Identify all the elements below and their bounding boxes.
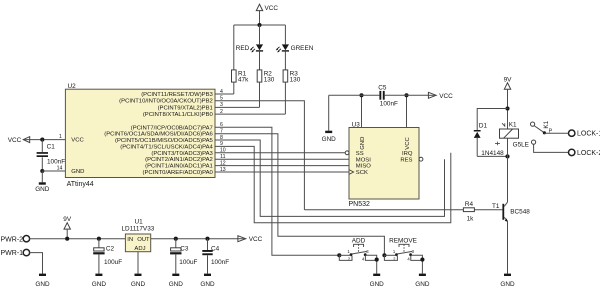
junction REMOVE left xyxy=(382,253,386,257)
svg-text:(PCINT9/XTAL2)PB1: (PCINT9/XTAL2)PB1 xyxy=(158,105,213,111)
svg-text:MISO: MISO xyxy=(356,164,371,170)
ground below U1 ADJ xyxy=(131,274,146,288)
op IC U3 PN532 body xyxy=(345,121,423,208)
capacitor C5 100nF xyxy=(378,84,398,107)
svg-text:(PCINT5/OC1B/MISO/DO/ADC5)PA5: (PCINT5/OC1B/MISO/DO/ADC5)PA5 xyxy=(115,138,213,144)
wire R1 column xyxy=(233,25,235,70)
U3 RES inversion circle xyxy=(419,157,423,161)
svg-text:100uF: 100uF xyxy=(104,259,122,266)
svg-text:GND: GND xyxy=(35,186,50,193)
svg-text:GND: GND xyxy=(370,281,385,288)
pushbutton S REMOVE xyxy=(389,238,417,262)
capacitor C1 100nF xyxy=(37,140,66,171)
svg-text:MOSI: MOSI xyxy=(356,157,371,163)
svg-text:U3: U3 xyxy=(352,121,361,128)
wire PA1 pin12 to MISO xyxy=(215,165,349,167)
9V supply arrow right xyxy=(504,76,513,129)
svg-text:C3: C3 xyxy=(180,246,189,253)
wire PA6 pin7 to REMOVE button xyxy=(215,134,384,256)
LED D red xyxy=(236,44,263,70)
U2 pin labels right side xyxy=(104,92,213,176)
svg-text:GND: GND xyxy=(360,137,366,150)
svg-text:C4: C4 xyxy=(211,246,220,253)
svg-text:(PCINT11/RESET/DW)PB3: (PCINT11/RESET/DW)PB3 xyxy=(141,92,213,98)
svg-text:(PCINT10/INT0/OC0A/CKOUT)PB2: (PCINT10/INT0/OC0A/CKOUT)PB2 xyxy=(119,99,213,105)
junction C4 xyxy=(205,237,209,241)
wire ADD pin4 loop xyxy=(365,256,376,261)
svg-text:(PCINT3/T0/ADC3)PA3: (PCINT3/T0/ADC3)PA3 xyxy=(151,151,213,157)
svg-text:RES: RES xyxy=(400,157,412,163)
ground below C2 xyxy=(92,274,107,288)
svg-text:PWR-1: PWR-1 xyxy=(1,250,24,257)
svg-text:C2: C2 xyxy=(106,246,115,253)
wire REMOVE right lead to ground xyxy=(411,255,423,273)
svg-text:GND: GND xyxy=(169,281,184,288)
wire D1 top branch xyxy=(477,109,507,131)
wire PB1 pin3 to R2 xyxy=(215,106,260,108)
regulator U1 LD1117V33 xyxy=(122,219,155,253)
U3 SS inversion circle xyxy=(345,151,349,155)
svg-text:1k: 1k xyxy=(467,215,475,222)
svg-text:VCC: VCC xyxy=(405,137,411,150)
svg-text:(PCINT4/T1/SCL/USCK/ADC4)PA4: (PCINT4/T1/SCL/USCK/ADC4)PA4 xyxy=(120,144,213,150)
op IC U2 ATtiny44 body xyxy=(65,83,215,188)
pushbutton S ADD xyxy=(347,238,369,262)
wire U1 out rail xyxy=(151,238,238,240)
ground below C4 xyxy=(200,274,215,288)
junction C1 top xyxy=(40,138,44,142)
relay contact K1 xyxy=(531,120,553,144)
junction 9V / D1 xyxy=(505,106,509,110)
wire ADD right lead to ground xyxy=(365,255,377,273)
wire U1 ADJ to ground xyxy=(137,252,139,274)
svg-text:(PCINT7/ICP/OC0B/ADC7)PA7: (PCINT7/ICP/OC0B/ADC7)PA7 xyxy=(131,125,213,131)
svg-text:(PCINT6/OC1A/SDA/MOSI/DI/ADC6): (PCINT6/OC1A/SDA/MOSI/DI/ADC6)PA6 xyxy=(104,132,213,138)
terminal LOCK-2 xyxy=(569,149,600,157)
wire PA0 pin13 to SCK xyxy=(215,171,349,173)
relay K1 coil G5LE xyxy=(495,122,529,149)
svg-text:U1: U1 xyxy=(135,219,144,226)
svg-text:D1: D1 xyxy=(479,122,488,129)
wire PA5 pin8 to RES xyxy=(215,140,445,216)
svg-text:GND: GND xyxy=(322,136,337,143)
svg-text:BC548: BC548 xyxy=(510,209,530,216)
svg-text:IRQ: IRQ xyxy=(402,151,413,157)
svg-text:LOCK-2: LOCK-2 xyxy=(577,150,600,157)
junction 9V rail xyxy=(65,237,69,241)
wire PB3 pin4 to R1 xyxy=(215,93,234,95)
svg-text:GND: GND xyxy=(131,281,146,288)
svg-text:GND: GND xyxy=(200,281,215,288)
svg-text:C1: C1 xyxy=(47,144,56,151)
svg-text:VCC: VCC xyxy=(265,5,279,12)
wire D1 bottom branch xyxy=(477,155,507,157)
wire pin14 xyxy=(42,170,65,172)
wire RED LED column xyxy=(259,25,261,44)
svg-text:OUT: OUT xyxy=(137,237,150,243)
svg-text:GREEN: GREEN xyxy=(291,45,314,52)
svg-text:ADD: ADD xyxy=(352,238,366,245)
wire VCC rail top xyxy=(234,24,286,26)
wire GREEN LED column xyxy=(284,25,286,44)
svg-text:LD1117V33: LD1117V33 xyxy=(122,226,155,233)
svg-text:U2: U2 xyxy=(68,83,77,90)
svg-text:9V: 9V xyxy=(63,216,72,223)
wire PB0 pin2 to R3 xyxy=(215,113,285,115)
svg-text:K1: K1 xyxy=(509,122,517,129)
svg-text:IN: IN xyxy=(127,237,133,243)
terminal PWR-2 xyxy=(1,236,30,244)
svg-text:GND: GND xyxy=(415,281,430,288)
wire R4 to T1 base xyxy=(474,209,502,211)
svg-text:GND: GND xyxy=(92,281,107,288)
diode D1 1N4148 xyxy=(474,122,504,157)
resistor R2 130 xyxy=(257,70,275,108)
svg-text:130: 130 xyxy=(290,77,301,84)
wire C5 left rail xyxy=(329,94,380,96)
junction U3 VCC stub xyxy=(404,93,408,97)
svg-text:47k: 47k xyxy=(238,77,249,84)
wire relay to T1 collector xyxy=(507,138,509,202)
svg-text:PN532: PN532 xyxy=(349,201,371,208)
ground below C1 xyxy=(35,171,50,193)
svg-text:GND: GND xyxy=(71,169,84,175)
svg-text:(PCINT2/AIN1/ADC2)PA2: (PCINT2/AIN1/ADC2)PA2 xyxy=(145,157,213,163)
svg-text:VCC: VCC xyxy=(8,137,22,144)
wire C5 right rail xyxy=(385,94,429,96)
svg-text:(PCINT1/AIN0/ADC1)PA1: (PCINT1/AIN0/ADC1)PA1 xyxy=(145,164,213,170)
svg-text:RED: RED xyxy=(236,45,250,52)
wire PA3 pin10 to SS xyxy=(215,152,345,154)
svg-text:VCC: VCC xyxy=(249,236,263,243)
wire PA2 pin11 to MOSI xyxy=(215,158,349,160)
VCC supply arrow bottom xyxy=(238,236,263,244)
capacitor C3 100uF electrolytic xyxy=(170,239,197,274)
U3 SCK clock mark xyxy=(349,170,354,175)
svg-text:130: 130 xyxy=(264,77,275,84)
svg-text:ADJ: ADJ xyxy=(134,246,145,252)
svg-text:14: 14 xyxy=(57,165,63,171)
capacitor C4 100nF xyxy=(202,239,229,274)
wire PA7 pin6 to ADD button xyxy=(215,127,339,255)
resistor R1 47k xyxy=(232,70,250,94)
svg-text:(PCINT0/AREF/ADC0)PA0: (PCINT0/AREF/ADC0)PA0 xyxy=(143,170,214,176)
svg-text:REMOVE: REMOVE xyxy=(389,238,417,245)
VCC supply arrow left xyxy=(8,137,66,145)
svg-text:VCC: VCC xyxy=(439,93,453,100)
wire ADD pin2 loop xyxy=(339,255,352,260)
svg-text:SCK: SCK xyxy=(356,170,368,176)
wire U3 VCC stub xyxy=(406,95,408,127)
wire PB2 pin5 xyxy=(215,101,304,210)
ground below REMOVE xyxy=(415,274,430,288)
wire PWR-1 to ground xyxy=(29,253,42,274)
svg-text:100nF: 100nF xyxy=(211,259,229,266)
svg-text:G5LE: G5LE xyxy=(513,141,529,148)
resistor R4 1k xyxy=(463,201,474,222)
svg-text:VCC: VCC xyxy=(71,138,84,144)
svg-text:GND: GND xyxy=(35,281,50,288)
terminal LOCK-1 xyxy=(569,130,600,138)
ground near U3 xyxy=(322,95,337,143)
svg-text:9V: 9V xyxy=(504,76,513,83)
junction D1 bottom xyxy=(505,154,509,158)
wire K1 NO contact to LOCK-2 xyxy=(534,144,569,152)
junction C1 bottom / pin14 xyxy=(40,169,44,173)
svg-text:C5: C5 xyxy=(378,84,387,91)
junction U3 GND stub xyxy=(359,93,363,97)
wire U3 GND stub xyxy=(361,95,363,127)
wire PWR-2 rail xyxy=(29,238,125,240)
9V supply arrow bottom left xyxy=(63,216,72,239)
wire ADD left lead xyxy=(339,254,351,256)
wire REMOVE left lead xyxy=(384,254,396,256)
junction C2 xyxy=(97,237,101,241)
ground below T1 xyxy=(500,274,515,288)
svg-text:100uF: 100uF xyxy=(179,259,197,266)
svg-text:ATtiny44: ATtiny44 xyxy=(67,181,94,188)
VCC supply arrow top xyxy=(256,4,278,25)
svg-text:T1: T1 xyxy=(492,203,500,210)
terminal PWR-1 xyxy=(1,249,30,257)
VCC supply arrow mid xyxy=(428,92,453,100)
resistor R3 130 xyxy=(283,70,301,114)
wire REMOVE pin4 loop xyxy=(411,256,423,261)
svg-text:1: 1 xyxy=(59,134,62,140)
ground below PWR-1 xyxy=(35,274,50,288)
ground below ADD xyxy=(370,274,385,288)
wire PA4 pin9 to IRQ xyxy=(215,146,451,222)
junction ADD left xyxy=(337,253,341,257)
svg-text:GND: GND xyxy=(500,281,515,288)
wire REMOVE pin2 loop xyxy=(384,255,397,260)
svg-text:SS: SS xyxy=(356,151,364,157)
svg-text:LOCK-1: LOCK-1 xyxy=(577,131,600,138)
wire PB2 bus to R4 xyxy=(304,209,463,211)
svg-text:100nF: 100nF xyxy=(380,101,398,108)
LED D green xyxy=(276,44,314,70)
svg-text:PWR-2: PWR-2 xyxy=(1,236,24,243)
ground below C3 xyxy=(169,274,184,288)
junction ADD ground drop xyxy=(375,258,379,262)
capacitor C2 100uF electrolytic xyxy=(93,239,122,274)
U2 pin numbers xyxy=(220,89,226,173)
svg-text:(PCINT8/XTAL1/CLKI)PB0: (PCINT8/XTAL1/CLKI)PB0 xyxy=(143,112,214,118)
transistor T1 BC548 xyxy=(492,202,530,273)
wire K1 pole to LOCK-1 xyxy=(544,132,568,134)
junction C3 xyxy=(174,237,178,241)
svg-text:R4: R4 xyxy=(465,201,474,208)
junction top rail xyxy=(257,23,261,27)
junction REMOVE ground drop xyxy=(420,258,424,262)
